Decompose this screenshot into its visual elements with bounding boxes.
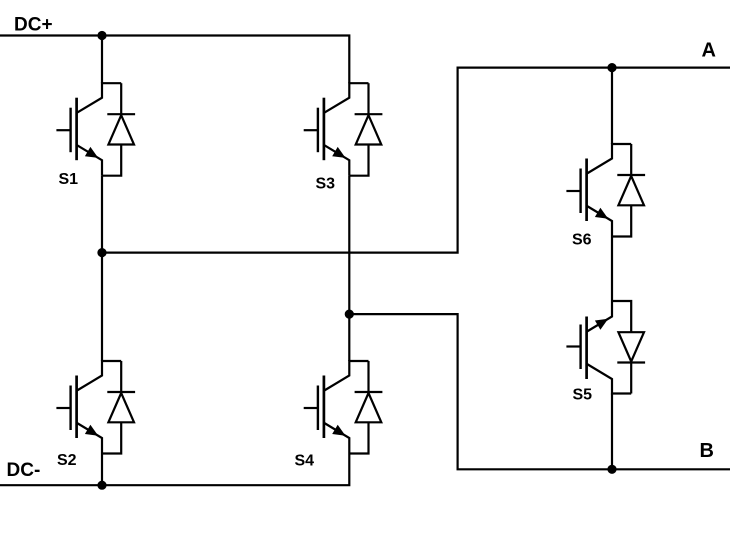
wire DC+ rail to S1 collector (101, 36, 103, 84)
IGBT S4: collector-to-diode top wire (349, 360, 368, 362)
diode D-S1 (anti-parallel freewheeling diode of S1) (102, 83, 135, 176)
IGBT S6: collector/emitter body bar (585, 159, 588, 222)
IGBT S3: collector-to-diode top wire (349, 82, 368, 84)
svg-text:A: A (702, 40, 716, 62)
IGBT S3: collector lead (324, 82, 349, 113)
wire S6 emitter to S5 emitter (bypass branch) (611, 237, 613, 302)
label S6 (572, 232, 592, 249)
diode D-S3 (anti-parallel freewheeling diode of S3) (349, 83, 382, 176)
IGBT S4: emitter lead with arrow (324, 423, 349, 454)
node B rail / bypass leg junction (607, 465, 616, 474)
IGBT S5: gate lead pin (566, 345, 580, 347)
diode D-S2 (anti-parallel freewheeling diode of S2) (102, 361, 135, 454)
svg-text:S4: S4 (295, 453, 315, 470)
IGBT S1: emitter lead with arrow (77, 145, 102, 176)
IGBT S1: collector/emitter body bar (75, 98, 78, 161)
node middle-leg midpoint (output B tap) (345, 310, 354, 319)
svg-text:DC-: DC- (7, 460, 41, 481)
IGBT S3: gate bar (317, 108, 319, 153)
label S4 (295, 453, 315, 470)
svg-text:B: B (700, 440, 714, 462)
wire A rail to S6 collector (611, 68, 613, 144)
IGBT S4: collector/emitter body bar (323, 376, 326, 439)
IGBT S5: gate bar (579, 325, 581, 370)
svg-text:S5: S5 (573, 387, 593, 404)
node left-leg midpoint (output A tap) (97, 248, 106, 257)
label S3 (316, 176, 336, 193)
IGBT S2: collector lead (77, 360, 102, 391)
IGBT S4: collector lead (324, 360, 349, 391)
label A (702, 40, 716, 62)
IGBT S3: gate lead pin (304, 129, 318, 131)
IGBT S1: collector lead (77, 82, 102, 113)
label B (700, 440, 714, 462)
IGBT S2: emitter lead with arrow (77, 423, 102, 454)
IGBT S3: emitter lead with arrow (324, 145, 349, 176)
wire middle-leg midpoint to terminal B rail (349, 314, 730, 469)
IGBT S1: collector-to-diode top wire (102, 82, 121, 84)
IGBT S4: gate bar (317, 386, 319, 431)
IGBT S5: collector lead (587, 364, 612, 395)
IGBT S4: gate lead pin (304, 407, 318, 409)
wire S5 collector to B rail (611, 394, 613, 470)
IGBT S5: collector-to-diode bottom wire (612, 392, 631, 394)
IGBT S2: gate lead pin (56, 407, 70, 409)
svg-text:S2: S2 (57, 452, 77, 469)
diode D-S4 (anti-parallel freewheeling diode of S4) (349, 361, 382, 454)
node A rail / bypass leg junction (607, 63, 616, 72)
IGBT S3: collector/emitter body bar (323, 98, 326, 161)
svg-text:S6: S6 (572, 232, 592, 249)
IGBT S5: emitter lead with arrow (587, 301, 612, 332)
IGBT S6: gate bar (579, 169, 581, 214)
label S1 (59, 171, 79, 188)
IGBT S1: gate bar (69, 108, 71, 153)
IGBT S2: collector/emitter body bar (75, 376, 78, 439)
IGBT S6: gate lead pin (566, 190, 580, 192)
node DC+ / S1 collector junction (97, 31, 106, 40)
wire S3 emitter to S4 collector (middle leg midpoint) (348, 176, 350, 361)
wire DC+ rail (top bus, turns down into leg 2) (0, 36, 349, 84)
IGBT S2: collector-to-diode top wire (102, 360, 121, 362)
wire S1 emitter to S2 collector (left leg midpoint) (101, 176, 103, 361)
svg-text:S1: S1 (59, 171, 79, 188)
IGBT S1: gate lead pin (56, 129, 70, 131)
IGBT S6: emitter lead with arrow (587, 206, 612, 237)
label S2 (57, 452, 77, 469)
IGBT S6: collector-to-diode top wire (612, 143, 631, 145)
label S5 (573, 387, 593, 404)
wire left-leg midpoint to terminal A riser (102, 68, 730, 253)
svg-text:DC+: DC+ (14, 15, 53, 36)
node DC- / S2 emitter junction (97, 481, 106, 490)
diode D-S5 (anti-parallel freewheeling diode of S5) (612, 301, 645, 394)
wire DC- rail (bottom bus, turns up into leg 2) (0, 454, 349, 486)
IGBT S2: gate bar (69, 386, 71, 431)
label DC+ (14, 15, 53, 36)
IGBT S6: collector lead (587, 143, 612, 174)
diode D-S6 (anti-parallel freewheeling diode of S6) (612, 144, 645, 237)
wire S2 emitter to DC- rail (101, 454, 103, 486)
IGBT S5: collector/emitter body bar (585, 317, 588, 380)
svg-text:S3: S3 (316, 176, 336, 193)
label DC- (7, 460, 41, 481)
